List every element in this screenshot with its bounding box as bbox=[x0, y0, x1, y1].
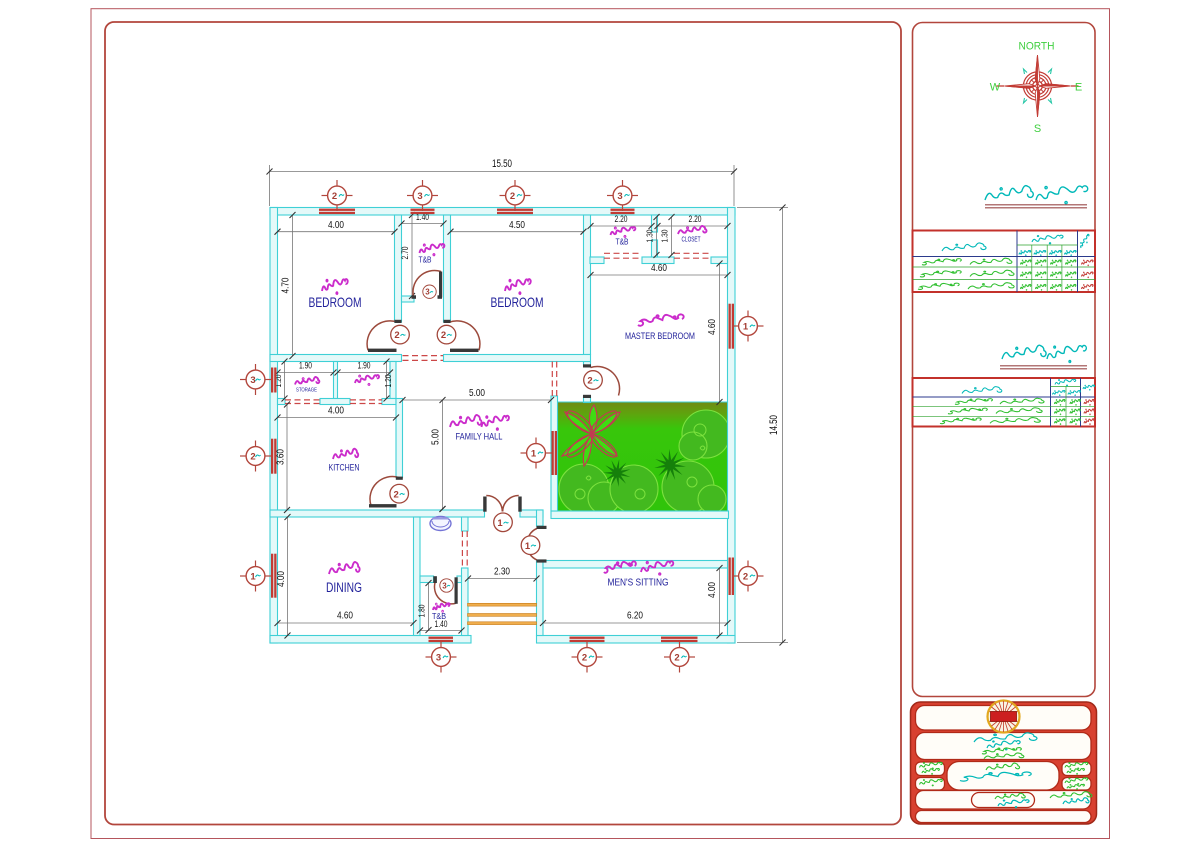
svg-text:BEDROOM: BEDROOM bbox=[309, 294, 362, 310]
svg-text:2.20: 2.20 bbox=[689, 214, 702, 225]
svg-text:4.60: 4.60 bbox=[651, 262, 667, 274]
svg-text:4.60: 4.60 bbox=[337, 610, 353, 622]
svg-text:T&B: T&B bbox=[419, 255, 432, 265]
svg-text:FAMILY HALL: FAMILY HALL bbox=[456, 432, 503, 442]
svg-text:2: 2 bbox=[587, 376, 592, 387]
svg-text:S: S bbox=[1034, 123, 1041, 135]
svg-text:1: 1 bbox=[250, 572, 256, 583]
svg-text:4.00: 4.00 bbox=[328, 219, 344, 231]
svg-text:DINING: DINING bbox=[326, 580, 362, 595]
svg-text:5.00: 5.00 bbox=[469, 387, 485, 399]
svg-text:6.20: 6.20 bbox=[627, 610, 643, 622]
svg-text:2: 2 bbox=[250, 452, 255, 463]
svg-text:3: 3 bbox=[442, 582, 447, 591]
svg-text:STORAGE: STORAGE bbox=[296, 388, 317, 394]
svg-text:2.70: 2.70 bbox=[400, 247, 411, 260]
svg-text:1: 1 bbox=[497, 518, 503, 529]
svg-text:MEN'S SITTING: MEN'S SITTING bbox=[608, 577, 669, 589]
svg-text:1.90: 1.90 bbox=[358, 361, 371, 371]
svg-text:2: 2 bbox=[441, 330, 446, 341]
svg-text:1: 1 bbox=[531, 449, 537, 460]
svg-text:1.30: 1.30 bbox=[661, 229, 670, 242]
svg-text:1.20: 1.20 bbox=[384, 374, 393, 387]
svg-text:3: 3 bbox=[250, 375, 255, 386]
svg-text:1.90: 1.90 bbox=[299, 361, 312, 371]
svg-text:2: 2 bbox=[394, 330, 399, 341]
svg-text:4.60: 4.60 bbox=[706, 319, 718, 335]
svg-text:2: 2 bbox=[332, 191, 337, 202]
svg-text:14.50: 14.50 bbox=[768, 415, 780, 435]
svg-text:3: 3 bbox=[436, 653, 441, 664]
svg-text:4.00: 4.00 bbox=[275, 571, 287, 587]
svg-text:E: E bbox=[1075, 82, 1082, 94]
svg-text:4.50: 4.50 bbox=[509, 219, 525, 231]
svg-text:15.50: 15.50 bbox=[492, 158, 512, 170]
svg-text:MASTER BEDROOM: MASTER BEDROOM bbox=[625, 331, 695, 342]
svg-text:W: W bbox=[990, 82, 1001, 94]
svg-text:1: 1 bbox=[525, 541, 531, 552]
svg-text:2: 2 bbox=[582, 653, 587, 664]
svg-text:CLOSET: CLOSET bbox=[682, 237, 701, 244]
svg-text:1.30: 1.30 bbox=[646, 229, 655, 242]
svg-text:T&B: T&B bbox=[616, 238, 629, 247]
svg-text:1.80: 1.80 bbox=[417, 604, 427, 617]
svg-text:3: 3 bbox=[617, 191, 622, 202]
svg-text:BEDROOM: BEDROOM bbox=[491, 294, 544, 310]
svg-text:2: 2 bbox=[510, 191, 515, 202]
svg-text:1: 1 bbox=[743, 322, 749, 333]
svg-text:NORTH: NORTH bbox=[1019, 41, 1055, 53]
svg-text:3: 3 bbox=[417, 191, 422, 202]
svg-text:2.30: 2.30 bbox=[494, 566, 510, 578]
svg-text:4.00: 4.00 bbox=[706, 582, 718, 598]
svg-text:2.20: 2.20 bbox=[615, 214, 628, 225]
svg-text:2: 2 bbox=[743, 572, 748, 583]
svg-text:3: 3 bbox=[425, 288, 430, 297]
svg-text:5.00: 5.00 bbox=[430, 429, 442, 445]
svg-text:4.00: 4.00 bbox=[328, 405, 344, 417]
svg-text:KITCHEN: KITCHEN bbox=[329, 463, 360, 473]
svg-text:2: 2 bbox=[674, 653, 679, 664]
svg-text:T&B: T&B bbox=[432, 611, 446, 621]
svg-text:4.70: 4.70 bbox=[280, 277, 292, 293]
svg-text:2: 2 bbox=[394, 489, 399, 500]
